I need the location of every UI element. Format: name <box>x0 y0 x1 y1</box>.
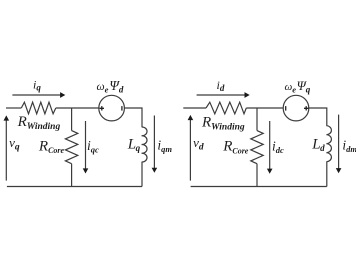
label R_Winding (q-axis) <box>17 114 61 132</box>
dependent source U2: speed voltage ωeΨq <box>283 95 309 121</box>
resistor R_Core (q-axis) <box>65 131 77 164</box>
svg-text:vd: vd <box>193 135 204 152</box>
label Ld <box>311 136 325 153</box>
svg-text:RWinding: RWinding <box>17 114 61 132</box>
svg-text:vq: vq <box>9 135 20 152</box>
svg-text:iqc: iqc <box>87 138 99 155</box>
svg-text:id: id <box>217 78 225 93</box>
resistor R_Winding (q-axis) <box>21 102 56 114</box>
resistor R_Winding (d-axis) <box>206 102 246 114</box>
wire: resistor to source circle (through R_Core junction, d-axis) <box>246 107 283 109</box>
voltage arrow vd (points up) <box>189 119 191 181</box>
svg-text:iqm: iqm <box>157 137 172 154</box>
svg-text:Lq: Lq <box>127 136 141 153</box>
minus polarity mark of source ωeΨq <box>285 106 287 111</box>
inductor Lq <box>142 127 147 162</box>
label ωeΨq <box>285 78 311 95</box>
svg-text:idc: idc <box>272 138 284 155</box>
label iqc <box>87 138 99 155</box>
dependent source U1: speed voltage ωeΨd <box>99 95 125 121</box>
svg-text:RCore: RCore <box>38 139 65 156</box>
label idc <box>272 138 284 155</box>
wire: bottom rail (d-axis) <box>191 186 327 188</box>
svg-text:Ld: Ld <box>311 136 325 153</box>
plus polarity mark of source ωeΨd <box>100 106 104 110</box>
wire: R_Core bottom to bottom rail (d-axis) <box>256 164 258 187</box>
label Lq <box>127 136 141 153</box>
wire: resistor to source circle (through R_Core junction) <box>56 107 99 109</box>
label id <box>217 78 225 93</box>
label iqm <box>157 137 172 154</box>
wire: inductor bottom to bottom rail corner (d-axis) <box>326 162 328 187</box>
wire: source to top-right corner (d-axis) <box>309 108 327 126</box>
svg-text:idm: idm <box>342 138 356 155</box>
node: junction of R_Core branch with top wire <box>71 108 73 131</box>
current arrow iqc (points down) <box>85 121 87 169</box>
svg-text:ωeΨq: ωeΨq <box>285 78 311 95</box>
current arrow iqm (points down) <box>153 116 155 169</box>
resistor R_Core (d-axis) <box>251 131 263 164</box>
minus polarity mark of source ωeΨd <box>121 106 123 111</box>
wire: R_Core bottom to bottom rail <box>71 164 73 187</box>
label R_Core (d-axis) <box>222 139 249 156</box>
label iq <box>33 78 41 93</box>
svg-text:RCore: RCore <box>222 139 249 156</box>
label vq <box>9 135 20 152</box>
svg-text:RWinding: RWinding <box>201 115 245 133</box>
wire: inductor bottom to bottom rail corner <box>141 162 143 187</box>
node: junction of R_Core branch with top wire (d-axis) <box>256 108 258 131</box>
label ωeΨd <box>97 78 124 95</box>
label R_Core (q-axis) <box>38 139 65 156</box>
voltage arrow vq (points up) <box>5 119 7 181</box>
label R_Winding (d-axis) <box>201 115 245 133</box>
current arrow id (points right) <box>197 94 245 96</box>
svg-text:iq: iq <box>33 78 41 93</box>
label idm <box>342 138 356 155</box>
current arrow idm (points down) <box>338 115 340 169</box>
wire: top-left stub to resistor (d-axis) <box>183 107 206 109</box>
label vd <box>193 135 204 152</box>
current arrow iq (points right) <box>12 94 60 96</box>
wire: top-left stub to resistor <box>6 107 21 109</box>
wire: source to top-right corner <box>124 108 142 127</box>
current arrow idc (points down) <box>269 121 271 170</box>
inductor Ld <box>326 126 331 162</box>
plus polarity mark of source ωeΨq <box>304 106 308 110</box>
wire: bottom rail (q-axis) <box>7 186 142 188</box>
svg-text:ωeΨd: ωeΨd <box>97 78 124 95</box>
